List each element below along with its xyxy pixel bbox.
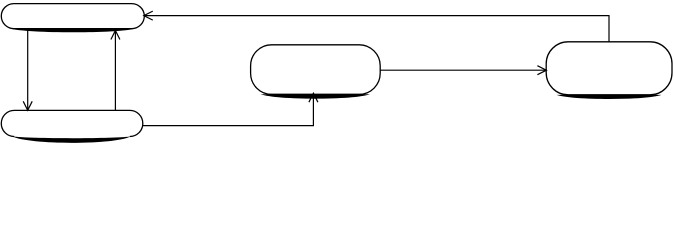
wire D to A (up then left feedback) [145, 16, 609, 42]
wire A to B (down arrow shaft) [27, 31, 29, 110]
arrowhead down at B [23, 101, 32, 110]
node A bottom shade arc [10, 29, 136, 33]
arrowhead up at C [309, 93, 318, 102]
node D bottom shade arc [557, 95, 662, 99]
state node C (middle rounded box) [251, 45, 381, 95]
state node A (top-left rounded box) [1, 4, 144, 29]
arrowhead right at D [537, 66, 546, 75]
arrowhead left at A [144, 11, 153, 20]
state node B (bottom-left rounded box) [1, 110, 143, 136]
wire B to C (right then up) [143, 94, 314, 126]
state node D (right rounded box) [546, 42, 672, 95]
arrowhead up at A [111, 31, 120, 40]
wire C to D (horizontal) [381, 69, 546, 71]
wire B to A (up arrow shaft) [114, 31, 116, 110]
node B bottom shade arc [12, 136, 131, 142]
node C bottom shade arc [261, 94, 370, 98]
